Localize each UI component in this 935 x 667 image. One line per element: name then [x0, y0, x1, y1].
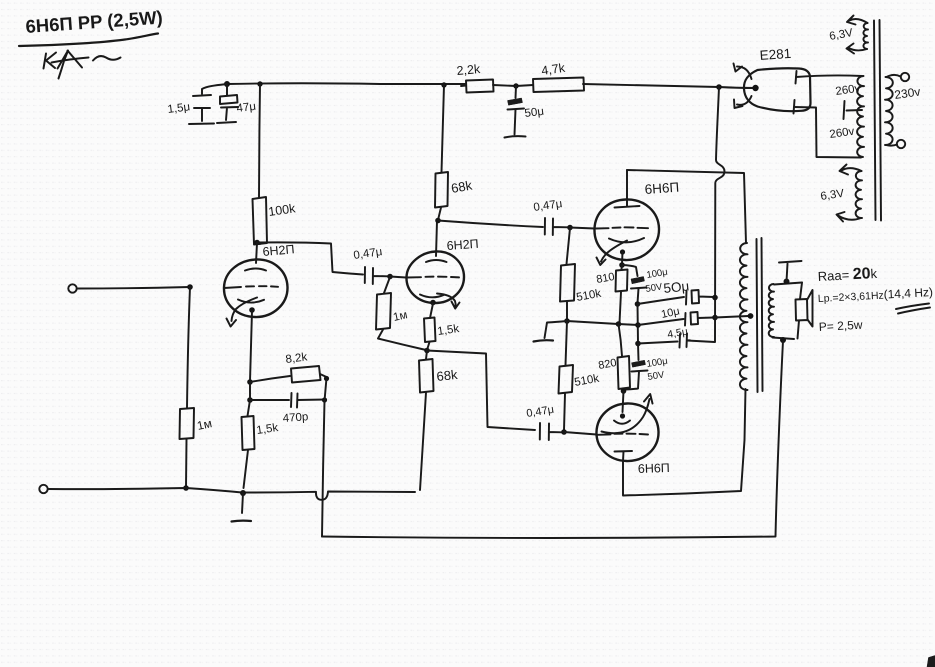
node ground junction 510k	[564, 318, 570, 324]
pentode V3 6N6P envelope	[594, 199, 659, 260]
node V1 cathode network bottom	[247, 397, 253, 403]
wire C5 to V3 grid	[570, 228, 595, 229]
node secondary top	[784, 279, 790, 285]
rectifier V5 EZ81 envelope	[744, 68, 811, 111]
node rail left cap junction	[224, 81, 230, 87]
wire R9 stem	[567, 228, 571, 264]
wire secondary right edge	[798, 283, 803, 339]
svg-text:5Oμ: 5Oμ	[663, 278, 690, 296]
wire J1 to V1 grid	[77, 287, 190, 289]
svg-text:6Н6П: 6Н6П	[644, 180, 679, 197]
resistor R5 68k	[435, 172, 474, 208]
node feedback top	[324, 376, 329, 381]
resistor R10 510k	[559, 365, 601, 394]
T1 winding W1 6,3V top	[863, 23, 868, 49]
node rail 50u tap	[513, 83, 518, 88]
node V4 cathode junction	[621, 388, 627, 394]
V1 cathode pin node	[249, 307, 255, 313]
terminal W4 bottom	[897, 140, 905, 148]
wire ground bus	[48, 488, 415, 500]
annotation Lp	[817, 285, 933, 305]
annotation underline	[896, 304, 930, 314]
node 4,5u tap	[635, 341, 641, 347]
resistor R7 1,5k	[424, 318, 460, 343]
wire feedback from secondary to bottom bus	[322, 341, 783, 538]
transformer T1 core	[874, 20, 881, 221]
V1 grid dashes	[224, 286, 278, 288]
T1 winding W2 260V	[857, 76, 864, 157]
V1 anode pin and plate	[245, 243, 266, 271]
wire R9 to ground node	[566, 302, 568, 321]
transformer T2 core	[757, 238, 763, 392]
W3 arrow top	[840, 165, 862, 175]
svg-text:E281: E281	[759, 46, 792, 63]
tube label V3 6N6P	[644, 180, 679, 197]
T1 winding W4 230V primary	[885, 77, 893, 145]
wire V1 cathode down	[250, 311, 252, 381]
title annotation	[25, 6, 163, 37]
svg-text:47μ: 47μ	[236, 101, 257, 115]
V5 heater arrow top	[734, 64, 752, 80]
transformer T2 secondary winding	[769, 284, 774, 337]
wire V5 anode bottom to W2	[794, 107, 861, 158]
ground GND V1 cathode	[232, 519, 252, 522]
capacitor C3 470p	[282, 393, 326, 425]
tube label V5 EZ81	[759, 46, 792, 63]
V5 heater arrow bottom	[734, 96, 752, 108]
wire V4 cathode pin	[623, 391, 624, 412]
wire R6 stem	[384, 277, 390, 293]
wire C4 to V2 grid	[390, 277, 406, 278]
node V3 grid	[567, 225, 573, 231]
wire V5 anode top to W2	[796, 75, 862, 77]
wire rail to C1/C2	[202, 84, 227, 94]
V2 anode pin and plate	[426, 221, 447, 262]
speaker LS1	[796, 290, 813, 327]
wire C11 to V4 grid	[564, 432, 597, 435]
svg-text:470p: 470p	[282, 411, 308, 425]
wire B+ drop with hop over anode wire	[715, 87, 725, 342]
node V1 anode	[254, 240, 260, 246]
tube label V2 6N2P	[446, 237, 479, 253]
ground GND output stage	[534, 340, 554, 341]
wire R8 to ground bus	[420, 393, 426, 491]
wire rail to R5	[442, 85, 445, 172]
label W2 260V lower	[829, 126, 856, 141]
wire feedback drop to bottom bus	[322, 401, 325, 537]
node grid / R4 tap	[187, 284, 193, 290]
tube label V1 6N2P	[262, 242, 295, 259]
wire R5 to V2 anode node	[438, 208, 441, 221]
capacitor C7 100u 50V lower	[625, 344, 669, 390]
svg-text:6Н2П: 6Н2П	[262, 242, 295, 259]
resistor R3 8,2k	[285, 351, 321, 382]
node V2 grid	[387, 274, 393, 280]
svg-text:68k: 68k	[436, 367, 459, 384]
wire W4 to terminal bottom	[887, 145, 898, 146]
wire C2 top	[226, 84, 228, 95]
node rail 100k tap	[257, 81, 262, 86]
svg-text:2,2k: 2,2k	[456, 62, 482, 78]
wire R6 bottom to cathode junction	[378, 330, 426, 351]
transformer T2 primary winding	[740, 243, 748, 390]
V4 flourish arrow	[602, 394, 653, 433]
signature	[44, 51, 121, 79]
tube label V4 6N6P	[638, 461, 670, 476]
input terminal J1	[68, 284, 76, 292]
V3 anode pin and plate	[615, 170, 640, 208]
V1 cathode flourish arrow	[227, 298, 258, 327]
capacitor C4 0,47u coupling	[353, 246, 388, 284]
capacitor C10 4,5u filter	[638, 326, 690, 348]
wire B+ rail top	[227, 83, 755, 88]
node secondary bottom	[780, 337, 786, 343]
triode V1 6N2P envelope	[224, 259, 288, 317]
V2 grid dashes	[407, 276, 459, 279]
W2 center tap	[844, 101, 863, 119]
wire R4 to ground bus	[185, 439, 188, 487]
T1 winding W3 6,3V bottom	[856, 171, 862, 218]
wire V3 cathode pin	[621, 252, 624, 264]
W3 arrow bottom	[837, 212, 862, 222]
wire R2 stem	[244, 450, 249, 488]
capacitor C8 50u filter	[638, 278, 715, 304]
wire V4 anode to OT primary bottom	[623, 389, 746, 496]
wire 4,5u joins B+ line	[687, 341, 715, 343]
resistor R12 820	[597, 324, 630, 389]
V5 anode plate bottom	[794, 100, 795, 114]
W1 arrow top	[847, 16, 868, 25]
node rail 68k tap	[441, 82, 446, 87]
wire cathode junction to C11	[427, 351, 535, 431]
node V2 anode	[435, 218, 441, 224]
pentode V4 6N6P envelope	[596, 403, 658, 461]
node cathode ground tap	[240, 490, 246, 496]
title underline	[19, 34, 158, 47]
ground C2	[217, 122, 236, 123]
svg-text:P= 2,5w: P= 2,5w	[818, 318, 863, 334]
V4 anode plate and pin	[615, 451, 633, 461]
node 810/820 bus tap	[616, 321, 622, 327]
capacitor C12 50u	[508, 86, 545, 135]
node feedback bottom	[322, 397, 327, 402]
capacitor C6 100u 50V	[622, 265, 669, 303]
T2 secondary bottom edge	[773, 338, 795, 340]
resistor R9 510k	[560, 264, 602, 304]
V1 cathode	[238, 300, 264, 303]
wire R7 to node	[427, 342, 430, 350]
terminal W4 top	[901, 73, 909, 81]
V2 cathode	[420, 295, 444, 298]
label W2 260V upper	[835, 83, 862, 98]
wire to C3	[250, 399, 289, 401]
node T2 center tap	[748, 313, 754, 319]
V3 cathode pin node	[620, 249, 625, 254]
capacitor C9 10u filter	[638, 305, 714, 325]
resistor R14 4,7k	[533, 61, 584, 92]
node B+ 50u	[712, 295, 718, 301]
scan artifact bottom-right corner	[927, 656, 935, 667]
label W3 6,3V	[820, 188, 845, 203]
resistor R6 1M	[376, 293, 409, 330]
V3 cathode	[609, 238, 644, 242]
resistor R4 1M	[180, 408, 214, 439]
wire R1 to V1 anode node	[258, 243, 260, 244]
wire R10 to V4 grid node	[564, 394, 565, 431]
capacitor C11 0,47u coupling lower	[526, 404, 562, 440]
wire to ground symbol	[545, 321, 568, 338]
node B+ center tap	[712, 315, 718, 321]
label W1 6,3V	[828, 27, 854, 43]
resistor R1 100k	[253, 197, 298, 245]
wire center tap	[715, 316, 749, 318]
wire R3 to fb node	[320, 374, 327, 377]
label W4 230V	[893, 84, 921, 101]
wire node to R8	[426, 351, 427, 360]
wire cathode node pair	[248, 382, 251, 416]
V4 cathode	[614, 421, 630, 424]
capacitor C1 1,5u	[167, 95, 211, 121]
triode V2 6N2P envelope	[406, 251, 464, 303]
resistor R13 2,2k	[456, 62, 493, 93]
wire W4 to terminal top	[887, 75, 901, 77]
W1 arrow bottom	[847, 44, 868, 54]
V4 grid dashes	[598, 434, 648, 435]
wire ground drop segment	[637, 304, 640, 343]
wire V3 anode to OT primary top	[627, 170, 746, 243]
node V4 grid	[561, 429, 567, 435]
ground C12	[505, 136, 526, 137]
node V1 cathode network top	[247, 379, 253, 385]
node R4 bus	[183, 485, 189, 491]
V3 cathode flourish arrow	[597, 241, 628, 266]
svg-text:6Н2П: 6Н2П	[446, 237, 479, 253]
chassis mark secondary	[779, 261, 802, 282]
node V3 cathode network	[619, 262, 625, 268]
V3 grid dashes	[596, 227, 648, 228]
node ground bus x638	[635, 322, 641, 328]
V5 cathode node	[752, 85, 758, 91]
capacitor C5 0,47u coupling upper	[533, 198, 568, 235]
node V2 cathode junction	[424, 348, 430, 354]
svg-text:50μ: 50μ	[524, 106, 545, 120]
annotation P	[818, 318, 863, 334]
wire V1 anode to C4	[257, 242, 363, 274]
wire feedback node bar	[325, 378, 327, 401]
resistor R8 68k	[419, 359, 459, 393]
node C6 bottom 50u tap	[635, 301, 641, 307]
capacitor C2 47u	[220, 95, 257, 120]
wire R4 drop	[187, 287, 190, 408]
transformer T2 secondary top edge	[774, 283, 802, 285]
svg-text:Rаа= 20k: Rаа= 20k	[817, 265, 878, 285]
V2 cathode pin node	[430, 300, 436, 306]
wire V2 anode to C5	[438, 221, 543, 228]
V2 cathode flourish arrow	[437, 294, 460, 309]
svg-text:6Н6П: 6Н6П	[638, 461, 670, 476]
resistor R11 810	[595, 265, 627, 292]
input terminal J2	[39, 485, 47, 493]
wire to R3	[250, 376, 290, 382]
node rail B+ to output stage	[716, 84, 722, 90]
wire R11 to ground bus	[620, 292, 622, 323]
wire 510k lower stem from ground node	[566, 321, 568, 365]
wire V2 cathode to R7	[430, 304, 433, 319]
V4 cathode pin node	[620, 413, 625, 418]
annotation Raa	[817, 265, 878, 285]
ground C1	[189, 123, 214, 126]
wire ground bus to cathode networks	[567, 321, 638, 325]
resistor R2 1,5k	[242, 416, 280, 450]
V5 anode plate top	[796, 71, 797, 84]
wire R2 to ground	[242, 493, 243, 513]
wire rail to R1	[259, 84, 260, 197]
